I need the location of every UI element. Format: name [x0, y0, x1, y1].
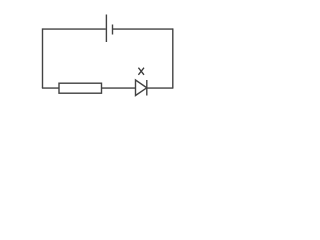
diode X cathode bar: [146, 80, 148, 96]
value label "X" for diode: [138, 68, 144, 75]
wire bottom-left horizontal: [42, 87, 59, 89]
battery cell short plate (negative terminal): [112, 25, 114, 35]
battery cell long plate (positive terminal): [105, 15, 107, 43]
wire resistor to diode: [102, 87, 136, 89]
wire top-left horizontal: [43, 28, 106, 30]
wire left vertical: [42, 28, 44, 88]
diode X triangle (anode, pointing right): [136, 80, 147, 96]
wire right vertical: [172, 28, 174, 88]
wire diode to right: [147, 87, 173, 89]
resistor (rectangular box): [59, 83, 102, 93]
wire top-right horizontal: [113, 28, 173, 30]
